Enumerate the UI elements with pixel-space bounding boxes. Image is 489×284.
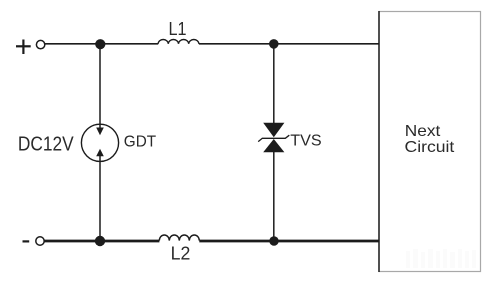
svg-text:L2: L2 <box>171 243 191 263</box>
svg-text:GDT: GDT <box>124 134 157 151</box>
svg-text:DC12V: DC12V <box>18 134 74 156</box>
svg-text:TVS: TVS <box>290 133 321 150</box>
svg-text:Next: Next <box>405 123 441 140</box>
svg-text:Circuit: Circuit <box>405 139 455 156</box>
svg-text:L1: L1 <box>169 19 187 39</box>
